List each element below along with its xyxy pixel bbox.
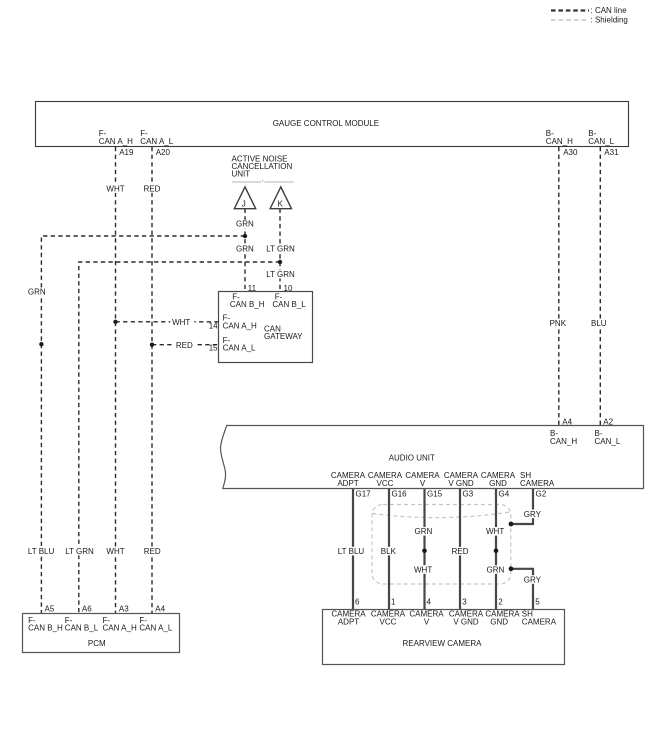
camera pin 3 CAMERA V GND <box>449 598 484 627</box>
pin A31 B-CAN_L <box>588 129 619 157</box>
svg-text:GND: GND <box>490 617 508 626</box>
svg-text:CAN_L: CAN_L <box>595 437 621 446</box>
audio pin G17 CAMERA ADPT <box>331 471 371 498</box>
svg-text:CAN A_H: CAN A_H <box>223 322 257 331</box>
svg-text:CAN A_H: CAN A_H <box>103 624 137 633</box>
svg-text:G4: G4 <box>499 489 510 498</box>
camera pin 5 SH CAMERA <box>522 598 557 627</box>
svg-text:V: V <box>420 479 426 488</box>
gateway pin 10 F-CAN B_L <box>272 284 306 309</box>
PCM box <box>23 614 180 653</box>
svg-text:5: 5 <box>535 598 540 607</box>
rearview camera box <box>323 610 565 665</box>
svg-text:CAMERA: CAMERA <box>522 617 557 626</box>
svg-text:LT GRN: LT GRN <box>65 547 94 556</box>
PCM pin A5 F-CAN B_H <box>28 605 63 633</box>
svg-text:WHT: WHT <box>106 547 124 556</box>
svg-text:15: 15 <box>209 344 218 353</box>
svg-text:LT BLU: LT BLU <box>338 547 365 556</box>
CAN gateway box <box>219 292 313 363</box>
wire F-CAN B_H GRN / LT BLU (ANC J tap to PCM A5) <box>27 236 246 614</box>
svg-text:G2: G2 <box>536 489 547 498</box>
svg-text:A6: A6 <box>82 605 92 614</box>
svg-text:: CAN line: : CAN line <box>591 6 628 15</box>
svg-text:WHT: WHT <box>106 184 124 193</box>
svg-text:GATEWAY: GATEWAY <box>264 332 303 341</box>
svg-text:GND: GND <box>489 479 507 488</box>
pin A20 F-CAN A_L <box>140 129 173 157</box>
svg-text:PCM: PCM <box>88 639 106 648</box>
svg-text:A2: A2 <box>603 418 613 427</box>
svg-text:LT GRN: LT GRN <box>266 270 295 279</box>
svg-text:A5: A5 <box>45 605 55 614</box>
svg-text:CAMERA: CAMERA <box>520 479 555 488</box>
svg-text:CAN B_L: CAN B_L <box>65 624 99 633</box>
svg-text:K: K <box>278 199 284 208</box>
audio pin A4 B-CAN_H <box>550 418 577 447</box>
svg-text:CAN B_L: CAN B_L <box>272 300 306 309</box>
ANC speaker K <box>270 187 291 209</box>
svg-text:1: 1 <box>391 598 396 607</box>
svg-text:GRN: GRN <box>28 287 46 296</box>
camera pin 4 CAMERA V <box>409 598 444 627</box>
svg-text:CAN A_L: CAN A_L <box>223 344 256 353</box>
wire SH CAMERA GRY upper (audio G2 to shield) <box>509 489 542 526</box>
svg-text:A3: A3 <box>119 605 129 614</box>
shield (rearview camera cable shielding) <box>372 505 511 585</box>
pin A19 F-CAN A_H <box>99 129 134 157</box>
wire CAMERA VCC BLK (audio G16 to camera 1) <box>379 489 397 610</box>
svg-text:LT BLU: LT BLU <box>28 547 55 556</box>
svg-text:CAN B_H: CAN B_H <box>28 624 63 633</box>
svg-text:3: 3 <box>462 598 467 607</box>
svg-text:RED: RED <box>144 547 161 556</box>
wire F-CAN A_H WHT (gauge A19 to PCM A3, tap to gateway 14) <box>105 147 218 614</box>
svg-text:G16: G16 <box>392 489 408 498</box>
svg-text:A30: A30 <box>563 148 578 157</box>
svg-text:A20: A20 <box>156 148 171 157</box>
svg-text:GRY: GRY <box>524 575 542 584</box>
svg-text:CAN A_L: CAN A_L <box>140 137 173 146</box>
svg-text:VCC: VCC <box>380 617 397 626</box>
svg-text:CAN A_H: CAN A_H <box>99 137 133 146</box>
camera pin 6 CAMERA ADPT <box>331 598 366 627</box>
svg-text:REARVIEW CAMERA: REARVIEW CAMERA <box>403 639 483 648</box>
svg-text:G3: G3 <box>463 489 474 498</box>
svg-text:CAN_L: CAN_L <box>588 137 614 146</box>
wire F-CAN B_L LT GRN (ANC K tap to PCM A6) <box>64 262 280 614</box>
svg-text:A4: A4 <box>562 418 572 427</box>
svg-text:BLU: BLU <box>591 319 607 328</box>
wire B-CAN_L BLU (gauge A31 to audio A2) <box>590 147 610 426</box>
svg-text:A31: A31 <box>604 148 619 157</box>
legend CAN line <box>551 6 627 15</box>
gateway pin 14 F-CAN A_H <box>209 314 257 331</box>
svg-text:V: V <box>424 617 430 626</box>
PCM pin A3 F-CAN A_H <box>103 605 137 633</box>
svg-text:WHT: WHT <box>414 565 432 574</box>
wire CAMERA GND WHT/GRN (audio G4 to camera 2) <box>485 489 507 610</box>
svg-text:ADPT: ADPT <box>337 479 358 488</box>
svg-text:: Shielding: : Shielding <box>591 16 628 25</box>
audio pin G15 CAMERA V <box>405 471 442 498</box>
svg-text:A19: A19 <box>119 148 134 157</box>
PCM pin A6 F-CAN B_L <box>65 605 99 633</box>
svg-text:10: 10 <box>284 284 293 293</box>
camera pin 1 CAMERA VCC <box>371 598 406 627</box>
audio pin G3 CAMERA V GND <box>444 471 479 498</box>
svg-text:RED: RED <box>452 547 469 556</box>
svg-text:GRN: GRN <box>236 244 254 253</box>
svg-text:V GND: V GND <box>453 617 479 626</box>
audio unit box <box>220 426 643 489</box>
audio pin G4 CAMERA GND <box>481 471 516 498</box>
wire LT GRN (ANC K to gateway 10) <box>265 209 296 292</box>
audio pin G2 SH CAMERA <box>520 471 555 498</box>
svg-text:GRN: GRN <box>236 220 254 229</box>
svg-text:RED: RED <box>176 341 193 350</box>
svg-text:G15: G15 <box>427 489 443 498</box>
svg-text:CAN_H: CAN_H <box>550 437 577 446</box>
svg-text:V GND: V GND <box>448 479 474 488</box>
legend Shielding <box>551 16 628 25</box>
audio pin A2 B-CAN_L <box>595 418 621 447</box>
wire B-CAN_H PNK (gauge A30 to audio A4) <box>548 147 569 426</box>
active noise cancellation unit label <box>232 155 294 183</box>
svg-text:6: 6 <box>355 598 360 607</box>
wire SH CAMERA GRY lower (shield to camera 5) <box>509 566 542 609</box>
wire CAMERA ADPT LT BLU (audio G17 to camera 6) <box>336 489 365 610</box>
svg-text:2: 2 <box>498 598 503 607</box>
svg-text:14: 14 <box>209 322 218 331</box>
gateway pin 11 F-CAN B_H <box>230 284 265 309</box>
svg-text:CAN A_L: CAN A_L <box>139 624 172 633</box>
svg-text:4: 4 <box>427 598 432 607</box>
svg-text:VCC: VCC <box>377 479 394 488</box>
wire CAMERA V GND RED (audio G3 to camera 3) <box>450 489 470 610</box>
svg-text:BLK: BLK <box>381 547 397 556</box>
svg-text:UNIT: UNIT <box>232 170 251 179</box>
camera pin 2 CAMERA GND <box>485 598 520 627</box>
gateway pin 15 F-CAN A_L <box>209 336 256 353</box>
svg-text:ADPT: ADPT <box>338 617 359 626</box>
svg-text:J: J <box>242 199 246 208</box>
ANC speaker J <box>234 187 255 209</box>
svg-text:CAN_H: CAN_H <box>546 137 573 146</box>
wire GRN (ANC J to gateway 11) <box>235 209 257 292</box>
svg-text:11: 11 <box>248 284 257 293</box>
gauge control module box <box>36 102 629 147</box>
audio pin G16 CAMERA VCC <box>368 471 407 498</box>
svg-text:GRY: GRY <box>524 510 542 519</box>
svg-text:LT GRN: LT GRN <box>266 244 295 253</box>
svg-text:A4: A4 <box>155 605 165 614</box>
svg-text:GRN: GRN <box>415 527 433 536</box>
svg-text:RED: RED <box>144 184 161 193</box>
svg-text:G17: G17 <box>356 489 372 498</box>
svg-text:PNK: PNK <box>550 319 567 328</box>
svg-text:WHT: WHT <box>486 527 504 536</box>
svg-text:WHT: WHT <box>172 318 190 327</box>
wire F-CAN A_L RED (gauge A20 to PCM A4, tap to gateway 15) <box>142 147 218 614</box>
svg-text:AUDIO UNIT: AUDIO UNIT <box>389 454 435 463</box>
wire CAMERA V GRN/WHT (audio G15 to camera 4) <box>413 489 435 610</box>
pin A30 B-CAN_H <box>546 129 578 157</box>
PCM pin A4 F-CAN A_L <box>139 605 172 633</box>
svg-text:CAN B_H: CAN B_H <box>230 300 265 309</box>
svg-text:GAUGE CONTROL MODULE: GAUGE CONTROL MODULE <box>273 119 379 128</box>
svg-text:GRN: GRN <box>487 565 505 574</box>
